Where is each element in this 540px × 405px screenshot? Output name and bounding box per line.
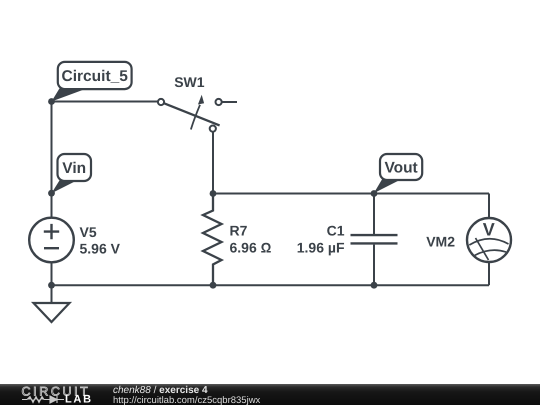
junction: C1 bottom [371, 282, 378, 289]
resistor R7 [203, 194, 272, 286]
wire: V5 bottom to ground rail [51, 262, 53, 285]
junction: R7 top [210, 190, 217, 197]
voltage source V5 [29, 218, 120, 263]
svg-text:R7: R7 [230, 223, 248, 239]
wire left rail: node A down to V5 top [51, 102, 53, 219]
svg-text:http://circuitlab.com/cz5cqbr8: http://circuitlab.com/cz5cqbr835jwx [113, 395, 261, 405]
svg-text:Vin: Vin [62, 160, 86, 177]
footer text [113, 385, 261, 405]
wire: VM2 bottom lead [488, 261, 490, 285]
junction: ground rail / V5 [48, 282, 55, 289]
node A (Circuit_5 junction) [48, 98, 55, 105]
svg-text:V: V [483, 220, 495, 240]
svg-text:C1: C1 [327, 223, 345, 239]
wire: SW1 bottom terminal down to middle rail [212, 132, 214, 194]
node label Vout [374, 154, 422, 193]
node label Circuit_5 [52, 62, 132, 102]
junction: R7 bottom [210, 282, 217, 289]
CircuitLab logo [22, 385, 93, 405]
svg-text:6.96 Ω: 6.96 Ω [230, 240, 272, 256]
voltmeter VM2 [426, 218, 511, 262]
svg-text:Circuit_5: Circuit_5 [62, 68, 129, 85]
capacitor C1 [297, 194, 398, 286]
wire bottom ground rail [52, 284, 490, 286]
svg-text:V5: V5 [80, 224, 97, 240]
node label Vin [52, 154, 92, 193]
node Vin [48, 190, 55, 197]
svg-text:Vout: Vout [384, 160, 417, 177]
wire: SW1 right stub [222, 101, 237, 103]
svg-text:1.96 µF: 1.96 µF [297, 240, 345, 256]
svg-text:LAB: LAB [65, 394, 93, 405]
ground [34, 285, 70, 322]
wire middle rail: R7 top to VM2 branch [213, 193, 489, 195]
wire: VM2 top lead [488, 194, 490, 220]
switch SW1 [158, 74, 222, 132]
svg-text:SW1: SW1 [174, 74, 205, 90]
svg-text:VM2: VM2 [426, 234, 455, 250]
node Vout junction [371, 190, 378, 197]
wire top: node A to SW1 left terminal [52, 101, 158, 103]
svg-text:5.96 V: 5.96 V [80, 241, 121, 257]
